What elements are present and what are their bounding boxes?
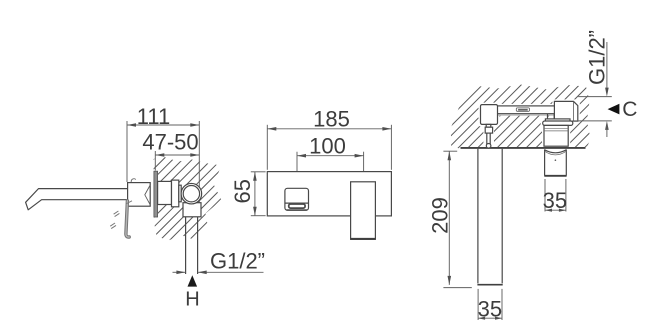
in-wall body bar — [496, 106, 556, 114]
valve flange — [172, 180, 179, 207]
svg-text:111: 111 — [137, 104, 170, 129]
G1/2 callout (left view) — [173, 249, 266, 275]
inlet pipe lines — [185, 217, 187, 274]
cartridge circle — [181, 183, 202, 204]
spout block (plan) — [481, 105, 498, 125]
wall plate (left view, edge on) — [154, 171, 158, 217]
lever swing marks — [110, 211, 119, 229]
dimension 65 — [230, 172, 266, 216]
spout tube (plan projection) — [477, 149, 479, 284]
svg-text:65: 65 — [230, 179, 255, 203]
spout (side view) — [26, 189, 128, 210]
dimension 100 — [297, 134, 364, 187]
dimension 47-50 — [142, 130, 199, 171]
svg-text:C: C — [622, 98, 637, 121]
wall hatch left view — [154, 157, 222, 241]
wall hatch right view — [451, 85, 591, 149]
svg-text:G1/2”: G1/2” — [210, 249, 265, 274]
cold water marker C — [608, 104, 620, 115]
svg-text:185: 185 — [313, 107, 350, 132]
G1/2 callout (right view) — [573, 30, 612, 137]
spout ball joint — [486, 144, 491, 149]
spout neck — [486, 124, 491, 127]
dimension 185 — [267, 107, 391, 170]
set screw hook — [131, 179, 136, 182]
dimension 111 — [127, 104, 199, 214]
svg-text:47-50: 47-50 — [142, 130, 198, 155]
elbow pipe — [547, 114, 549, 119]
spout stem — [487, 133, 490, 144]
cartridge flange — [543, 121, 573, 125]
svg-text:35: 35 — [478, 297, 502, 322]
spout holder box — [128, 183, 151, 207]
svg-text:H: H — [185, 288, 199, 310]
handle front view — [351, 182, 376, 240]
logo label — [496, 114, 556, 116]
lever handle — [126, 201, 129, 237]
dimension 35 (handle cap) — [543, 179, 567, 213]
cartridge top plate — [545, 119, 570, 121]
dimension 209 — [428, 151, 472, 287]
dimension 35 (spout tube) — [478, 289, 502, 322]
handle cap below wall — [544, 149, 566, 175]
cartridge body — [544, 125, 568, 146]
white halo around in-wall body — [481, 101, 578, 146]
wall plate front view — [267, 172, 391, 216]
wall surface line — [461, 147, 586, 149]
hot water marker H — [188, 275, 198, 286]
valve neck — [179, 185, 181, 202]
svg-text:35: 35 — [543, 188, 567, 213]
spout front view — [285, 188, 309, 210]
svg-text:G1/2”: G1/2” — [585, 30, 610, 85]
svg-text:100: 100 — [309, 134, 346, 159]
handle block (plan) — [554, 101, 577, 121]
valve body — [158, 181, 172, 204]
inlet box below cartridge — [183, 203, 201, 217]
lever pivot mark — [145, 185, 150, 205]
spout collar — [485, 127, 492, 133]
svg-text:209: 209 — [428, 197, 453, 234]
